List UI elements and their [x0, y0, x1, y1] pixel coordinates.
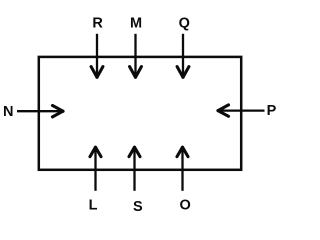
svg-text:R: R	[92, 15, 103, 31]
arrow O (up into box)	[177, 147, 188, 191]
arrow R (down into box)	[91, 34, 103, 77]
svg-text:M: M	[130, 15, 142, 31]
svg-text:Q: Q	[179, 15, 190, 31]
svg-text:S: S	[133, 199, 143, 215]
arrow N (rightward into box)	[17, 106, 63, 117]
arrow P (leftward into box)	[218, 105, 265, 116]
svg-text:P: P	[267, 103, 277, 119]
arrow L (up into box)	[90, 147, 101, 191]
arrow M (down into box)	[130, 34, 142, 77]
arrow Q (down into box)	[177, 34, 189, 77]
arrow S (up into box)	[129, 147, 140, 191]
rectangle box	[39, 57, 241, 170]
svg-text:N: N	[3, 104, 13, 120]
svg-text:O: O	[179, 197, 190, 213]
svg-text:L: L	[89, 197, 98, 213]
